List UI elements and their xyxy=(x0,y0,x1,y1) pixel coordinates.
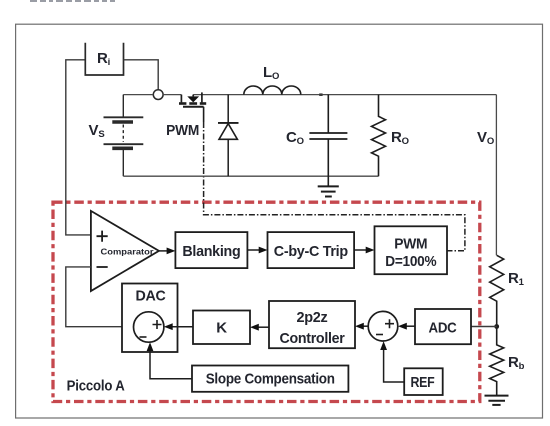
svg-text:ADC: ADC xyxy=(429,319,457,336)
wire comparator to Blanking with arrow xyxy=(159,250,167,252)
block DAC xyxy=(122,284,178,353)
wire REF to ADC summer with arrow xyxy=(384,350,405,383)
svg-text:Piccolo A: Piccolo A xyxy=(67,377,125,394)
wire K to DAC circle with arrow xyxy=(172,326,193,328)
block 2p2z Controller xyxy=(269,301,355,348)
transistor Q1 PWM switch xyxy=(179,92,206,122)
wire bottom rail xyxy=(123,175,378,177)
block Slope Compensation xyxy=(192,366,348,392)
node feedback junction dot xyxy=(494,324,499,329)
wire ADC to summer with arrow xyxy=(406,325,415,327)
wire feedback node to ADC xyxy=(471,326,497,328)
svg-text:2p2z: 2p2z xyxy=(297,309,328,326)
svg-text:Controller: Controller xyxy=(280,330,345,347)
resistor R0 load xyxy=(372,95,386,177)
svg-text:Slope Compensation: Slope Compensation xyxy=(206,370,335,387)
svg-text:K: K xyxy=(216,320,227,337)
block PWM D=100% xyxy=(375,226,448,274)
capacitor C0 xyxy=(309,95,347,187)
block K xyxy=(193,311,250,345)
battery Vs xyxy=(104,95,144,177)
svg-text:Blanking: Blanking xyxy=(182,243,240,260)
svg-text:Comparator: Comparator xyxy=(101,248,155,257)
wire 2p2z to K with arrow xyxy=(258,326,269,328)
inductor L0 xyxy=(244,86,301,95)
wire Blanking to C-by-C Trip with arrow xyxy=(247,249,259,251)
wire top rail mosfet to Vo corner xyxy=(193,94,496,96)
wire summer to 2p2z with arrow xyxy=(363,325,368,327)
svg-text:REF: REF xyxy=(411,374,435,391)
ground (Rb) xyxy=(485,396,509,405)
wire Ri right lead to sense node circle xyxy=(124,60,159,90)
diode D1 freewheel xyxy=(218,95,239,177)
svg-text:DAC: DAC xyxy=(136,288,166,305)
resistor Rb divider bottom xyxy=(490,327,504,396)
cropped caption text fragments (top edge) xyxy=(30,0,115,2)
svg-text:PWM: PWM xyxy=(166,122,199,139)
wire top rail circle to mosfet xyxy=(163,94,181,96)
summing node DAC circle xyxy=(134,312,164,342)
svg-text:PWM: PWM xyxy=(394,235,427,252)
block Blanking xyxy=(175,232,247,268)
block C-by-C Trip xyxy=(268,232,355,268)
wire DAC output to comparator - input xyxy=(66,267,122,327)
wire Slope Compensation to DAC circle with arrow xyxy=(150,351,192,379)
svg-text:C-by-C Trip: C-by-C Trip xyxy=(274,243,348,260)
node junction tick on rail xyxy=(319,93,322,96)
wire top rail battery to circle xyxy=(123,94,153,96)
node sense circle on rail xyxy=(153,90,163,100)
wire Ri left lead to comparator + input xyxy=(66,60,91,235)
dash-dot PWM gate drive net xyxy=(204,122,465,251)
block REF xyxy=(404,368,443,395)
svg-text:D=100%: D=100% xyxy=(385,253,436,270)
summing node ADC circle xyxy=(368,311,398,341)
resistor R1 divider top xyxy=(490,255,504,326)
ground (C0) xyxy=(318,186,339,196)
resistor Ri (open-top shunt box) xyxy=(85,43,123,75)
Piccolo A dashed boundary box xyxy=(53,202,480,401)
op-amp U1 comparator xyxy=(91,211,159,291)
block ADC xyxy=(415,309,471,344)
wire C-by-C Trip to PWM block with arrow xyxy=(354,249,366,251)
wire Vo vertical drop xyxy=(495,95,497,256)
